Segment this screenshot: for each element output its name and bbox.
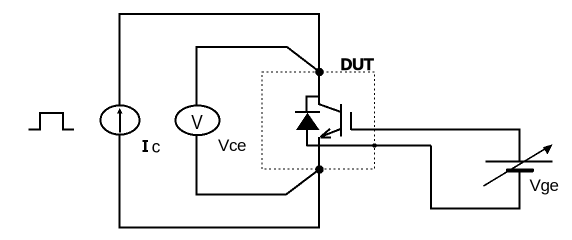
wire: emitter drop — [430, 146, 432, 210]
wire: left column bottom (Ic source to bottom rail) — [119, 135, 121, 229]
wire: bottom rail — [119, 227, 321, 229]
node: emitter wire at box edge — [372, 143, 376, 147]
svg-text:c: c — [152, 137, 161, 157]
label Ic — [142, 137, 160, 157]
svg-text:Vce: Vce — [218, 136, 246, 155]
wire: Vge bottom lead — [519, 172, 521, 210]
source Vge (variable gate supply) — [484, 144, 553, 186]
wire: collector drop from top rail — [318, 13, 320, 105]
wire: gate lead — [351, 129, 521, 131]
node: emitter junction dot — [315, 165, 324, 174]
svg-text:DUT: DUT — [341, 56, 374, 74]
svg-text:V: V — [191, 112, 203, 135]
DUT enclosure (dotted box) — [262, 72, 375, 169]
wire: gate drop to Vge top — [519, 130, 521, 162]
current source I1 (Ic) — [101, 105, 140, 134]
wire: emitter return — [307, 145, 432, 147]
svg-text:Vge: Vge — [530, 176, 559, 195]
wire: top rail — [119, 13, 321, 15]
wire: voltmeter top lead — [197, 47, 320, 105]
pulse waveform symbol — [29, 113, 75, 130]
node: collector junction dot — [315, 68, 324, 77]
wire: voltmeter bottom lead — [197, 135, 319, 195]
transistor Q1 (IGBT) — [319, 104, 352, 138]
diode D1 (freewheeling) — [295, 96, 320, 147]
wire: left column top (top rail to Ic source) — [119, 14, 121, 105]
wire: Vge bottom rail — [430, 208, 521, 210]
voltmeter V1 — [176, 106, 220, 136]
wire: main vertical emitter to bottom rail — [318, 137, 320, 228]
